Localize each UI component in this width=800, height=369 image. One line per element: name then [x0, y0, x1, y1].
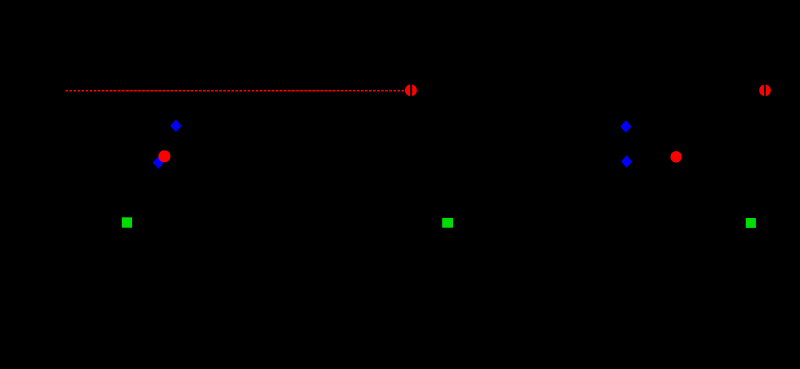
green square marker S2 (right panel bottom-left)	[442, 218, 453, 228]
red circle marker C1 (left panel)	[158, 150, 170, 162]
blue diamond marker D4 (right panel lower)	[621, 155, 632, 168]
red circle marker at right panel right edge	[759, 85, 771, 97]
black axis spine over edge marker (right panel)	[764, 60, 766, 120]
red dashed threshold line (left panel)	[65, 90, 405, 92]
blue diamond marker D2 (left panel lower, under red circle)	[153, 156, 164, 168]
black axis spine over edge marker (left panel)	[410, 60, 412, 120]
red circle marker C2 (right panel)	[670, 151, 681, 162]
green square marker S1 (left panel bottom)	[122, 217, 132, 227]
blue diamond marker D3 (right panel upper)	[620, 120, 631, 132]
blue diamond marker D1 (left panel upper)	[170, 120, 181, 132]
red circle marker at left panel right edge	[405, 84, 417, 96]
green square marker S3 (right panel bottom-right)	[746, 218, 756, 228]
